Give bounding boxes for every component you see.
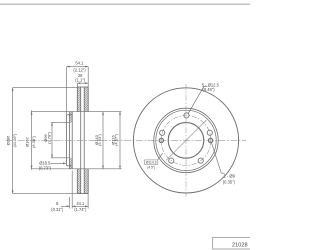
lug hole top	[184, 113, 189, 118]
front view centerlines	[161, 84, 210, 197]
lug hole lower-right	[198, 158, 203, 163]
leader 2-dia9	[211, 142, 224, 173]
svg-text:(0.35"): (0.35")	[223, 179, 236, 184]
svg-text:(1.1"): (1.1")	[75, 78, 86, 83]
tick small hole left	[160, 136, 162, 146]
dim line dia286	[12, 88, 14, 194]
witness disc OD bottom	[13, 193, 77, 195]
leader 5-dia12.5	[188, 87, 207, 114]
small hole left (dia9)	[159, 138, 163, 142]
disc bottom edge	[77, 193, 88, 195]
leader dia18.5	[51, 162, 67, 164]
svg-text:(3.78"): (3.78")	[47, 131, 52, 144]
hatch flange lower band	[70, 158, 73, 169]
outboard face lower	[87, 169, 89, 194]
svg-text:21028: 21028	[232, 243, 248, 249]
dim line 8	[61, 205, 70, 207]
center bore circle	[168, 123, 204, 159]
witness bore top	[51, 122, 70, 124]
inboard face lower	[76, 169, 78, 194]
arrows dia96	[51, 123, 53, 126]
boss bottom edge	[67, 165, 73, 167]
label 2-dia9	[223, 174, 236, 185]
pilot boss face	[66, 115, 68, 166]
lug hole upper-left	[160, 130, 165, 135]
hatch lower-left cheek	[77, 169, 80, 194]
diagonal centerline	[166, 120, 206, 160]
lug hole lower-left	[169, 158, 174, 163]
arrows dia143	[102, 112, 104, 115]
arrows dia162	[31, 112, 33, 115]
hatch lower-right cheek	[84, 169, 88, 194]
bottom witness flange face	[69, 197, 71, 209]
arrow 8	[67, 205, 70, 207]
bottom witness flange back	[71, 171, 73, 209]
boss top edge	[67, 114, 73, 116]
page top border	[0, 3, 250, 5]
witness bore bottom	[51, 157, 70, 159]
svg-text:(11.26"): (11.26")	[12, 133, 17, 147]
witness 54.1 left	[66, 67, 68, 115]
svg-text:44.1: 44.1	[76, 201, 85, 206]
dim line 44.1	[72, 205, 88, 207]
arrows dia286	[12, 88, 14, 91]
witness 28 left	[76, 83, 78, 87]
hatch upper-left cheek	[77, 87, 80, 112]
hat flange back	[71, 112, 73, 169]
dim line dia116	[119, 112, 121, 169]
svg-text:54.1: 54.1	[75, 61, 84, 66]
dim line dia143	[102, 112, 104, 169]
hub chamfer circle	[156, 110, 216, 170]
witness line hat bottom / ring inner bottom	[31, 168, 122, 170]
svg-text:Ø162: Ø162	[24, 136, 29, 147]
hatch upper-right cheek	[84, 87, 88, 112]
small hole right (dia9)	[208, 138, 212, 142]
arrow dia18.5 leader	[63, 162, 66, 164]
tick small hole right	[210, 136, 212, 146]
centerline horizontal (both views)	[6, 139, 246, 141]
svg-text:(0.73"): (0.73")	[39, 166, 52, 171]
boxed label dia114.3 B.C.	[145, 153, 163, 169]
dim line 54.1	[67, 66, 89, 68]
svg-text:(4.57"): (4.57")	[114, 133, 119, 146]
svg-text:(5.63"): (5.63")	[97, 133, 102, 146]
arrows 28	[77, 82, 80, 84]
svg-text:2 - Ø9: 2 - Ø9	[224, 174, 236, 179]
title block	[213, 237, 253, 249]
witness 54.1/28 right	[87, 67, 89, 87]
inboard face upper	[76, 87, 78, 112]
arrows dia116	[119, 112, 121, 115]
bottom witness outboard face	[87, 194, 89, 209]
hat flange face	[69, 112, 71, 169]
witness line hat top / ring inner top	[31, 111, 122, 113]
dim line dia96	[51, 123, 53, 158]
svg-text:(4.5"): (4.5")	[147, 165, 155, 169]
svg-text:Ø286: Ø286	[5, 135, 10, 146]
bolt circle (dash-dot)	[161, 115, 211, 165]
section dimension texts	[5, 61, 118, 213]
svg-text:8: 8	[56, 201, 59, 206]
vertical centerline	[185, 84, 187, 197]
outboard face upper	[87, 87, 89, 112]
svg-text:Ø114.3: Ø114.3	[146, 161, 157, 165]
arrowheads section	[12, 66, 121, 208]
svg-text:(0.31"): (0.31")	[51, 207, 64, 212]
svg-text:(6.38"): (6.38")	[31, 135, 36, 148]
witness disc OD top	[13, 87, 77, 89]
disc top edge	[77, 86, 88, 88]
label 5-dia12.5	[202, 82, 220, 92]
hub outer circle	[154, 108, 218, 172]
outer circle	[133, 88, 238, 193]
hatch flange upper band	[70, 112, 73, 123]
dim line dia162	[31, 111, 33, 170]
svg-text:(0.49"): (0.49")	[203, 87, 216, 92]
vent wall right	[83, 87, 85, 194]
svg-text:(1.74"): (1.74")	[74, 207, 87, 212]
svg-text:(2.12"): (2.12")	[73, 67, 86, 72]
vent wall left	[80, 87, 82, 194]
arrows 44.1	[72, 205, 75, 207]
arrows 54.1	[67, 66, 70, 68]
dim line 28	[77, 82, 88, 84]
lug hole upper-right	[207, 130, 212, 135]
